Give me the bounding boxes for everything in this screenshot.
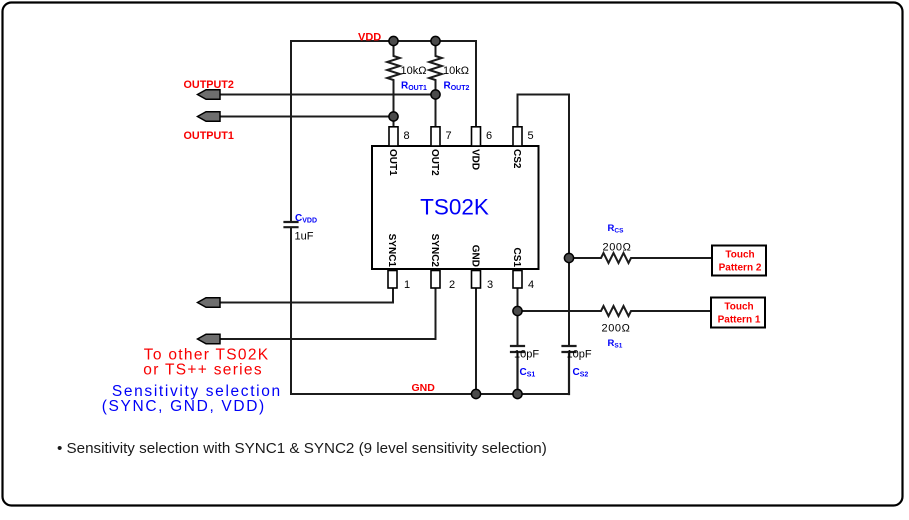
note To other TS02K or TS++ series [143,347,269,379]
pin 7 (OUT2) [429,127,452,176]
wire SYNC1 pin 1 to connector [220,288,393,303]
note Sensitivity selection (SYNC, GND, VDD) [102,383,282,415]
wire CS1 pin 4 down [517,288,519,345]
svg-text:200Ω: 200Ω [602,323,631,335]
svg-text:2: 2 [449,279,455,291]
connector arrow SYNC1 [198,298,221,308]
svg-text:200Ω: 200Ω [603,242,632,254]
svg-text:Pattern 1: Pattern 1 [718,315,761,326]
wire GND pin 3 to rail [475,288,477,394]
svg-text:3: 3 [487,279,493,291]
pin 3 (GND) [470,245,494,291]
svg-text:SYNC1: SYNC1 [386,234,397,268]
junction dot CS1 RS1 tap [513,306,522,315]
connector arrow SYNC2 [198,334,221,344]
svg-text:10pF: 10pF [567,349,592,361]
svg-text:OUT1: OUT1 [387,149,398,176]
svg-text:GND: GND [470,245,481,267]
IC U1 TS02K body [372,146,539,269]
box Touch Pattern 2 [712,246,766,276]
wire SYNC2 pin 2 to connector [220,288,436,339]
wire CS2 pin 5 route [518,95,570,346]
wire GND rail [291,393,569,395]
svg-text:6: 6 [486,130,492,142]
svg-text:VDD: VDD [358,32,381,44]
svg-text:10kΩ: 10kΩ [401,65,427,77]
wire CVDD bottom to GND rail [290,228,292,394]
svg-text:or TS++ series: or TS++ series [143,362,263,379]
junction dot CS2 RCS tap [564,253,573,262]
capacitor CVDD [285,222,298,227]
resistor RS1 [518,306,712,316]
pin 6 (VDD) [470,127,493,170]
svg-text:OUTPUT1: OUTPUT1 [184,130,234,142]
capacitor CS1 [511,346,524,394]
pin 4 (CS1) [511,248,534,291]
resistor ROUT2 [429,41,442,128]
connector arrow OUTPUT2 [198,90,221,100]
junction dot OUT1 tap [389,112,398,121]
svg-text:Touch: Touch [725,250,754,261]
svg-text:TS02K: TS02K [420,195,489,220]
svg-text:(SYNC, GND, VDD): (SYNC, GND, VDD) [102,398,266,415]
pin 2 (SYNC2) [429,234,455,291]
wire VDD top rail [291,40,476,42]
junction dot ROUT2 top [431,36,440,45]
svg-text:7: 7 [446,130,452,142]
junction dot GND pin3 at rail [471,389,480,398]
svg-text:VDD: VDD [470,149,481,170]
svg-text:10pF: 10pF [514,349,539,361]
wire left vertical VDD rail to CVDD top [290,41,292,221]
svg-text:4: 4 [528,279,534,291]
connector arrow OUTPUT1 [198,112,221,122]
pin 5 (CS2) [511,127,534,169]
pin 1 (SYNC1) [386,234,410,291]
resistor ROUT1 [387,41,400,128]
svg-text:1uF: 1uF [295,231,314,243]
wire OUTPUT1 net [220,116,394,118]
svg-text:5: 5 [528,130,534,142]
svg-text:1: 1 [404,279,410,291]
wire VDD rail to pin 6 [475,41,477,128]
svg-text:• Sensitivity selection with S: • Sensitivity selection with SYNC1 & SYN… [57,440,547,457]
svg-text:CS2: CS2 [511,149,522,169]
junction dot CS1 at rail [513,389,522,398]
svg-text:CS1: CS1 [511,248,522,268]
svg-text:GND: GND [412,382,436,394]
svg-text:SYNC2: SYNC2 [429,234,440,268]
svg-text:8: 8 [404,130,410,142]
junction dot ROUT1 top [389,36,398,45]
wire OUTPUT2 net [220,94,436,96]
junction dot OUT2 tap [431,90,440,99]
capacitor CS2 [563,346,576,394]
box Touch Pattern 1 [711,298,765,328]
resistor RCS [569,253,712,263]
svg-text:10kΩ: 10kΩ [443,65,469,77]
svg-text:Pattern 2: Pattern 2 [719,263,762,274]
svg-text:OUTPUT2: OUTPUT2 [184,79,234,91]
pin 8 (OUT1) [387,127,410,176]
svg-text:OUT2: OUT2 [429,149,440,176]
svg-text:Touch: Touch [724,302,753,313]
